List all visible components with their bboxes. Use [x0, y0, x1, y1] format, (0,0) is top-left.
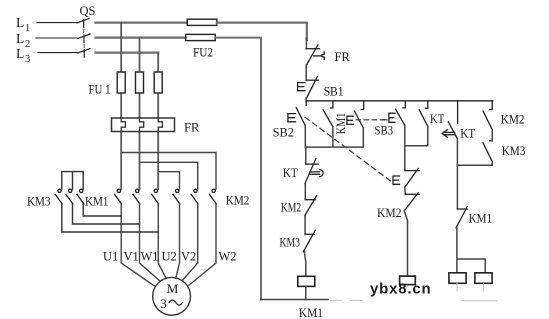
wire L2 to FU2b: [96, 36, 186, 38]
contactor KM3 contact 1: [55, 189, 62, 204]
svg-text:W2: W2: [219, 250, 237, 264]
contactor KM1 main contact 1: [115, 189, 122, 204]
contactor KM3 label: [27, 194, 51, 208]
coil KT stub faded: [456, 283, 458, 291]
wire KM3 contact3 to U1 column: [83, 204, 121, 216]
control left rail from fuse: [305, 38, 307, 49]
wire KT to KM2 NC: [304, 184, 306, 200]
control bus wire: [306, 100, 493, 102]
wire motor lead V2: [182, 204, 198, 281]
svg-text:U1: U1: [103, 250, 118, 264]
wire KT branch down: [456, 138, 458, 209]
svg-text:M: M: [167, 281, 179, 296]
node L1 label: [16, 15, 30, 34]
bottom rail faded right: [462, 300, 497, 302]
svg-text:FU 1: FU 1: [89, 83, 111, 97]
wire phase C vertical: [157, 53, 159, 189]
contact KM2 mid label: [377, 206, 402, 220]
svg-text:L: L: [16, 15, 24, 30]
wire NC1 to KM2 NC mid: [404, 187, 407, 194]
svg-text:KM3: KM3: [280, 236, 301, 250]
timer branch KT delayed contact: [442, 101, 458, 139]
thermal contact FR (NC): [306, 45, 324, 65]
pushbutton SB1 (NC stop): [298, 77, 319, 98]
contact KM2 NC (mid branch): [404, 193, 419, 211]
svg-text:KM1: KM1: [469, 212, 493, 226]
FR heater element 1: [121, 118, 125, 132]
svg-text:KM2: KM2: [281, 201, 302, 215]
wire FR to SB1: [305, 65, 307, 81]
wire motor lead U2: [176, 204, 180, 278]
coil KM1: [298, 276, 315, 286]
contact KM3 NC (column A): [303, 230, 315, 251]
coil KM2 (mid): [400, 276, 416, 285]
contact SB2-linked NC (mid branch): [393, 169, 419, 188]
motor 3-phase mark: [160, 296, 167, 311]
wire KT NO down: [427, 127, 429, 146]
svg-text:3: 3: [25, 54, 30, 65]
switch QS pole 1 blade: [77, 19, 89, 28]
svg-text:U2: U2: [162, 250, 177, 264]
motor terminal label W2: [219, 250, 237, 264]
svg-text:SB1: SB1: [324, 85, 344, 99]
svg-text:3: 3: [160, 296, 167, 311]
timer contact KT NO (upper): [419, 101, 428, 127]
wire SB1 to bus: [305, 98, 307, 101]
timer KT label column A: [283, 166, 298, 180]
thermal relay FR heater box: [112, 118, 175, 132]
svg-text:KM1: KM1: [299, 306, 323, 319]
wire coil KM1 to rail: [305, 286, 307, 299]
svg-text:KM3: KM3: [502, 144, 526, 158]
wire L2 input: [36, 37, 78, 39]
wire SB2 to join bar: [304, 126, 306, 147]
FR heater element 3: [158, 118, 162, 132]
fuse FU2b: [186, 34, 216, 40]
svg-text:KM3: KM3: [27, 194, 51, 208]
coil KM3 stub faded: [483, 283, 485, 291]
wire split to coils: [457, 228, 485, 273]
wire motor lead V1: [140, 204, 161, 281]
contactor KM1 main contact 2: [133, 189, 140, 204]
contact KM2 NC (column A): [305, 196, 317, 216]
svg-text:V1: V1: [124, 250, 139, 264]
wire jog to KT branch: [405, 145, 428, 147]
fuse FU1b: [136, 72, 144, 93]
motor terminal label U2: [162, 250, 177, 264]
contactor KM2 main label: [226, 193, 250, 207]
svg-text:KM1: KM1: [334, 113, 348, 135]
fuse FU1c: [154, 72, 162, 93]
thermal relay FR label: [184, 121, 200, 135]
pushbutton SB2 label: [273, 125, 294, 139]
svg-text:SB2: SB2: [273, 125, 294, 139]
wire phase B vertical: [139, 38, 141, 189]
wire motor lead W1: [158, 204, 166, 279]
wire tap B to delta column: [140, 162, 198, 189]
pushbutton SB1 label: [324, 85, 344, 99]
svg-text:1: 1: [25, 23, 30, 34]
wire seal-in to join bar: [332, 127, 334, 147]
wire KM3 contact2 to V1 column: [73, 204, 140, 224]
pushbutton SB3 right contact (NO): [389, 101, 405, 126]
wire motor lead U1: [121, 204, 154, 286]
contact KM1 NC label: [469, 212, 493, 226]
contact KM1 seal-in label rotated: [334, 113, 348, 135]
contactor KM3 contact 2: [66, 189, 73, 204]
svg-text:L: L: [16, 31, 24, 46]
join bar wire: [305, 146, 363, 148]
control FR label: [335, 50, 351, 64]
svg-text:2: 2: [25, 39, 30, 50]
switch QS pole 3 blade: [78, 49, 90, 58]
wire L1 to FU2a and control rail: [96, 22, 188, 24]
contact KM2 NC label: [281, 201, 302, 215]
contact KM3 right label: [502, 144, 526, 158]
contact KM3 NO (right branch): [483, 143, 492, 162]
bottom rail faded left: [331, 299, 371, 301]
wire phase A vertical: [120, 23, 122, 189]
contactor KM2 main contact 1: [173, 189, 180, 204]
wire KM3 to coil KM1: [304, 252, 306, 277]
timer KT delayed label: [460, 127, 475, 141]
linkage dash to SB3 E: [383, 119, 388, 121]
svg-text:FR: FR: [184, 121, 200, 135]
pushbutton SB2 (NO start): [288, 101, 306, 126]
svg-text:KT: KT: [460, 127, 475, 141]
svg-text:FR: FR: [335, 50, 351, 64]
timer contact KT NC delayed (column A): [305, 159, 323, 184]
svg-text:KM2: KM2: [377, 206, 402, 220]
contact KM3 NC label: [280, 236, 301, 250]
coil KM3: [475, 273, 492, 284]
motor M letter: [167, 281, 179, 296]
wire tap C to delta column: [158, 172, 179, 189]
motor terminal label U1: [103, 250, 118, 264]
contactor KM1 main label: [85, 194, 109, 208]
wire right branch to KT column: [457, 162, 492, 166]
svg-text:L: L: [16, 46, 24, 61]
wire KM2 to KM3 right: [490, 130, 493, 141]
motor terminal label V1: [124, 250, 139, 264]
node L2 label: [16, 31, 30, 50]
motor terminal label W1: [141, 250, 159, 264]
linkage dashed SB3 horizontal: [356, 119, 387, 121]
svg-text:KT: KT: [283, 166, 298, 180]
fuse FU2a: [187, 19, 217, 25]
pushbutton SB3 label: [375, 124, 394, 138]
bottom rail wire: [261, 299, 328, 301]
motor M circle: [153, 277, 191, 315]
svg-text:ybx8.cn: ybx8.cn: [370, 281, 431, 298]
motor terminal label V2: [181, 250, 196, 264]
FR heater element 2: [140, 118, 144, 132]
svg-text:V2: V2: [181, 250, 196, 264]
contactor KM2 main contact 3: [209, 189, 216, 204]
contact KM1 NC (right): [456, 207, 467, 228]
svg-text:KM1: KM1: [85, 194, 109, 208]
wire SB3 right down: [404, 125, 406, 170]
switch QS pole 2 blade: [78, 34, 90, 43]
coil KM1 label: [299, 306, 323, 319]
fuse FU1 label: [89, 83, 111, 97]
contact KM2 right label: [501, 112, 525, 126]
wire L3 output: [96, 51, 159, 53]
coil KT: [449, 273, 466, 284]
fuse FU2 label: [193, 46, 213, 60]
wire L3 input: [38, 52, 78, 54]
svg-text:KM2: KM2: [226, 193, 250, 207]
wire column A down: [305, 147, 307, 164]
motor tilde: [169, 300, 183, 305]
wire L1 input: [37, 22, 77, 24]
wire KM3 contact1 to W1 column: [62, 204, 158, 232]
contactor KM2 main contact 2: [191, 189, 198, 204]
svg-text:FU2: FU2: [193, 46, 213, 60]
contactor KM3 contact 3: [77, 189, 84, 204]
svg-text:QS: QS: [80, 4, 96, 18]
contactor KM1 main contact 3: [152, 189, 159, 204]
wire KM2 to KM3 NC: [304, 216, 306, 235]
wire motor lead W2: [189, 204, 216, 285]
wire FU2a to control drop: [217, 23, 307, 40]
svg-text:KT: KT: [430, 112, 445, 126]
wire SB3 left to join bar: [362, 128, 364, 147]
node L3 label: [16, 46, 30, 65]
switch QS linkage dashes: [83, 30, 85, 48]
wire tap A to delta column: [121, 153, 216, 190]
svg-text:KM2: KM2: [501, 112, 525, 126]
contact KM2 NO (right branch): [483, 101, 492, 130]
pushbutton SB3 left contact (NO): [347, 101, 364, 128]
contact KM1 seal-in (NO): [323, 101, 333, 127]
linkage dashed SB2 to lower NC: [305, 117, 390, 181]
wire mid branch to coil: [404, 211, 407, 276]
timer KT NO label: [430, 112, 445, 126]
contactor KM3 star bracket: [62, 172, 83, 189]
svg-text:SB3: SB3: [375, 124, 394, 138]
switch QS label: [80, 4, 96, 18]
watermark ybx8.cn: [370, 281, 431, 298]
svg-text:W1: W1: [141, 250, 159, 264]
fuse FU1a: [117, 72, 125, 93]
wire FU2b to left control rail: [215, 38, 261, 300]
